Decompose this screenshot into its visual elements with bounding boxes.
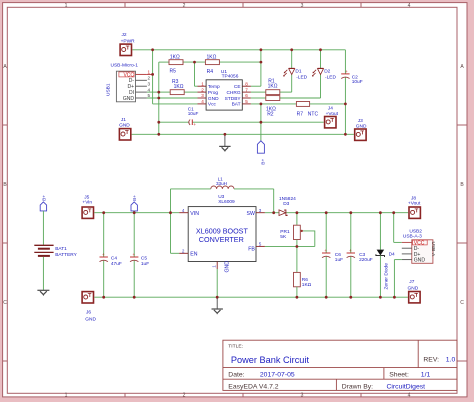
- svg-text:R5: R5: [170, 69, 177, 75]
- svg-text:R6: R6: [302, 277, 308, 283]
- port J7 GND: [408, 279, 421, 303]
- svg-text:8: 8: [245, 81, 248, 86]
- svg-text:1KΩ: 1KΩ: [170, 54, 180, 60]
- svg-text:3: 3: [301, 393, 304, 399]
- svg-text:CircuitDigest: CircuitDigest: [387, 383, 426, 390]
- svg-text:+: +: [349, 248, 352, 253]
- svg-text:+: +: [193, 122, 196, 127]
- svg-text:4: 4: [182, 208, 185, 213]
- svg-text:REV:: REV:: [423, 357, 439, 364]
- port J5 +Vin: [82, 194, 93, 218]
- diode D3 1N5824: [279, 196, 296, 215]
- resistor R7 NTC: [296, 102, 318, 118]
- svg-text:BAT: BAT: [232, 102, 241, 108]
- junction dots (boost): [102, 211, 396, 298]
- net flag B+ (charger): [257, 141, 266, 165]
- svg-text:B+: B+: [41, 195, 47, 201]
- svg-text:+: +: [133, 252, 136, 257]
- svg-text:GND: GND: [85, 316, 96, 322]
- svg-text:4: 4: [148, 87, 151, 92]
- port J2 +PWR: [120, 32, 135, 56]
- wire +Vin row: [94, 212, 179, 214]
- svg-text:1uF: 1uF: [141, 261, 149, 267]
- wire GND vertical bus left: [147, 62, 198, 134]
- svg-text:GND: GND: [208, 96, 219, 102]
- svg-text:J8: J8: [411, 195, 416, 201]
- svg-text:1/1: 1/1: [421, 372, 431, 379]
- svg-text:5: 5: [259, 242, 262, 247]
- svg-text:NTC: NTC: [308, 111, 319, 117]
- svg-text:FB: FB: [248, 247, 255, 253]
- svg-text:Vcc: Vcc: [208, 102, 217, 108]
- capacitor C4: [100, 213, 122, 298]
- svg-text:7: 7: [245, 87, 248, 92]
- wire USB2 GND down: [394, 260, 401, 298]
- LED D1: [283, 68, 307, 80]
- svg-text:TP4056: TP4056: [222, 74, 239, 80]
- port J6 GND: [82, 292, 96, 323]
- svg-text:CE: CE: [234, 84, 241, 90]
- svg-text:47uF: 47uF: [111, 261, 122, 267]
- svg-text:-LED: -LED: [325, 74, 336, 80]
- wire FB row: [265, 245, 315, 247]
- svg-text:Power Bank Circuit: Power Bank Circuit: [231, 355, 310, 365]
- svg-text:USB-A: USB-A: [430, 242, 436, 257]
- svg-text:C: C: [3, 300, 7, 306]
- svg-text:4: 4: [408, 393, 411, 399]
- svg-text:USB-A-3: USB-A-3: [403, 234, 422, 240]
- svg-text:2: 2: [148, 76, 151, 81]
- svg-text:D2: D2: [324, 69, 330, 75]
- svg-text:5K: 5K: [280, 234, 287, 240]
- svg-text:1: 1: [212, 265, 217, 268]
- svg-text:1KΩ: 1KΩ: [268, 83, 278, 89]
- svg-text:D3: D3: [283, 201, 289, 207]
- svg-text:CHRG: CHRG: [226, 90, 240, 96]
- potentiometer PR1 5K: [280, 213, 315, 247]
- wire R5-R4 node to U1 Temp pin: [183, 62, 205, 86]
- resistor R2: [266, 96, 280, 118]
- port J8 +Vout: [408, 195, 421, 218]
- svg-text:1KΩ: 1KΩ: [302, 282, 312, 288]
- svg-text:+: +: [102, 252, 105, 257]
- svg-text:C5: C5: [141, 255, 147, 261]
- svg-text:GND: GND: [119, 123, 130, 129]
- svg-text:R7: R7: [297, 111, 304, 117]
- svg-text:10uF: 10uF: [352, 79, 363, 85]
- svg-text:220uF: 220uF: [359, 257, 373, 263]
- port J3 GND: [355, 118, 367, 140]
- svg-text:BAT1: BAT1: [55, 246, 67, 252]
- resistor R6: [294, 247, 312, 298]
- resistor R5: [169, 54, 183, 74]
- net flag B+ (battery): [40, 195, 47, 211]
- port J4 +Vout: [325, 106, 339, 128]
- svg-text:5: 5: [245, 99, 248, 104]
- svg-text:D1: D1: [295, 69, 301, 75]
- svg-text:-LED: -LED: [296, 74, 307, 80]
- wire GND bottom row: [94, 296, 408, 298]
- wire BAT row to R7 and C2/GND column: [251, 103, 346, 105]
- IC U1 TP4056: [198, 69, 251, 110]
- svg-text:1: 1: [148, 70, 151, 75]
- svg-text:4: 4: [408, 3, 411, 9]
- svg-text:EasyEDA V4.7.2: EasyEDA V4.7.2: [228, 383, 278, 390]
- svg-text:B+: B+: [261, 159, 267, 165]
- wire battery top: [42, 211, 44, 245]
- capacitor C2: [341, 50, 363, 135]
- svg-text:J4: J4: [328, 106, 333, 112]
- svg-text:Sheet:: Sheet:: [389, 372, 409, 379]
- wire EN loop: [171, 213, 180, 254]
- svg-text:3: 3: [148, 81, 151, 86]
- wire Prog pin to R3: [184, 91, 197, 93]
- svg-text:BATTERY: BATTERY: [55, 252, 77, 258]
- connector USB2 USB-A-3: [402, 229, 436, 264]
- svg-text:VIN: VIN: [190, 211, 199, 217]
- wire GND row (J1 to J3): [132, 133, 354, 135]
- ground (battery): [37, 290, 49, 295]
- wire STDBY to R2 and D2: [251, 50, 321, 98]
- svg-text:1: 1: [201, 81, 204, 86]
- svg-text:1: 1: [65, 393, 68, 399]
- svg-text:GND: GND: [414, 258, 426, 264]
- svg-text:B+: B+: [132, 195, 138, 201]
- resistor R4: [205, 54, 219, 75]
- svg-text:3: 3: [201, 93, 204, 98]
- port J1 GND: [119, 117, 131, 140]
- svg-text:XL6009: XL6009: [218, 199, 235, 205]
- svg-text:R4: R4: [207, 69, 214, 75]
- net flag B+ (Vin row): [131, 195, 138, 213]
- wire VCC top rail: [132, 49, 345, 51]
- svg-text:1KΩ: 1KΩ: [174, 84, 184, 90]
- IC U3 XL6009: [179, 194, 265, 272]
- svg-text:10uF: 10uF: [188, 111, 199, 116]
- svg-text:6: 6: [245, 93, 248, 98]
- svg-text:5: 5: [148, 93, 151, 98]
- capacitor C1: [159, 106, 324, 127]
- svg-text:1.0: 1.0: [446, 357, 456, 364]
- svg-text:R2: R2: [267, 111, 274, 117]
- wire USB2 VCC feed: [394, 213, 402, 243]
- wire battery B+ node vertical: [260, 104, 262, 141]
- svg-text:TITLE:: TITLE:: [228, 344, 243, 350]
- svg-text:1KΩ: 1KΩ: [207, 54, 217, 60]
- title block: [223, 340, 457, 390]
- svg-text:Zener Diode: Zener Diode: [384, 263, 390, 290]
- wire SW row to D3: [265, 212, 408, 214]
- resistor R1: [266, 79, 280, 95]
- svg-text:2: 2: [183, 3, 186, 9]
- svg-text:2: 2: [183, 393, 186, 399]
- ground (U3): [212, 297, 223, 314]
- svg-text:GND: GND: [225, 261, 231, 273]
- svg-text:1uF: 1uF: [335, 257, 343, 263]
- svg-text:J3: J3: [358, 118, 363, 124]
- svg-text:CONVERTER: CONVERTER: [199, 235, 244, 244]
- svg-text:1: 1: [65, 3, 68, 9]
- svg-text:4: 4: [201, 99, 204, 104]
- svg-text:EN: EN: [190, 252, 197, 258]
- wire R4 to CE pullup node: [219, 50, 261, 86]
- wire VCC vertical from J2 to USB pin1 and U1 Vcc: [147, 50, 198, 104]
- wire U3 GND to rail: [216, 269, 218, 297]
- svg-text:+Vin: +Vin: [82, 200, 92, 206]
- junction dots (charger): [151, 48, 347, 135]
- svg-text:Drawn By:: Drawn By:: [342, 383, 373, 390]
- svg-text:J7: J7: [409, 279, 414, 285]
- wire CHRG to R1 and D1: [251, 50, 292, 92]
- svg-text:USB1: USB1: [106, 83, 112, 96]
- svg-text:J1: J1: [121, 117, 126, 123]
- svg-text:C: C: [460, 300, 464, 306]
- svg-text:J2: J2: [122, 32, 127, 38]
- svg-text:J6: J6: [86, 310, 91, 316]
- svg-text:XL6009 BOOST: XL6009 BOOST: [196, 226, 249, 235]
- svg-text:+Vout: +Vout: [408, 201, 421, 207]
- svg-text:J5: J5: [84, 194, 89, 200]
- zener diode D4: [376, 213, 395, 298]
- svg-text:C4: C4: [111, 255, 117, 261]
- wire battery bottom: [42, 257, 44, 290]
- inductor L1: [171, 177, 274, 213]
- svg-text:GND: GND: [123, 96, 135, 102]
- svg-text:2: 2: [201, 87, 204, 92]
- capacitor C5: [130, 213, 149, 298]
- svg-text:USB-Micro-1: USB-Micro-1: [111, 63, 139, 69]
- svg-text:3: 3: [301, 3, 304, 9]
- svg-text:2017-07-05: 2017-07-05: [260, 372, 295, 379]
- svg-text:2: 2: [182, 249, 185, 254]
- resistor R3: [170, 79, 184, 95]
- svg-text:D4: D4: [389, 252, 395, 258]
- svg-text:33uH: 33uH: [216, 181, 227, 186]
- connector USB1 USB-Micro-1: [106, 63, 151, 102]
- battery BAT1: [34, 245, 77, 257]
- svg-text:SW: SW: [247, 211, 255, 217]
- svg-text:Date:: Date:: [228, 372, 244, 379]
- svg-text:STDBY: STDBY: [225, 96, 242, 102]
- capacitor C6: [322, 213, 343, 298]
- LED D2: [312, 68, 336, 80]
- svg-text:Prog: Prog: [208, 90, 218, 96]
- svg-text:Temp: Temp: [208, 84, 220, 90]
- svg-text:3: 3: [259, 208, 262, 213]
- svg-text:+: +: [324, 248, 327, 253]
- capacitor C3: [347, 213, 373, 298]
- ground (charger): [219, 134, 230, 151]
